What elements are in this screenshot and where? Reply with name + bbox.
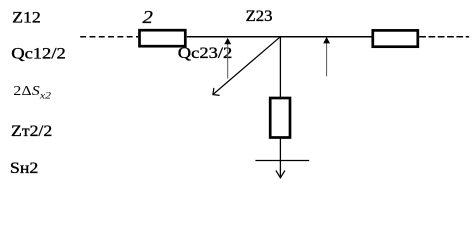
wire dashed right segment	[419, 36, 469, 38]
svg-text:2: 2	[143, 8, 154, 27]
load box vertical	[270, 98, 290, 138]
crossbar line	[255, 160, 309, 162]
resistor box left (branch 2)	[140, 30, 186, 46]
up arrow through Qc23/2 (filled triangle head)	[227, 40, 229, 79]
wire dashed left segment	[80, 36, 138, 38]
wire solid middle segment	[187, 36, 372, 38]
wire below load box	[279, 138, 281, 177]
svg-text:Sн2: Sн2	[10, 159, 38, 177]
svg-text:Qc12/2: Qc12/2	[11, 45, 66, 63]
node junction: vertical wire down to load box	[279, 37, 281, 97]
svg-text:Z12: Z12	[12, 8, 41, 26]
down arrowhead (open barb)	[276, 171, 285, 178]
svg-text:Zт2/2: Zт2/2	[11, 122, 52, 140]
resistor box right	[373, 30, 418, 46]
svg-text:2ΔSх2: 2ΔSх2	[13, 84, 51, 101]
diagonal arrow from node to lower-left (open barb head)	[214, 37, 281, 94]
svg-text:Z23: Z23	[246, 6, 273, 25]
up arrow right of node (filled triangle head)	[326, 40, 328, 77]
